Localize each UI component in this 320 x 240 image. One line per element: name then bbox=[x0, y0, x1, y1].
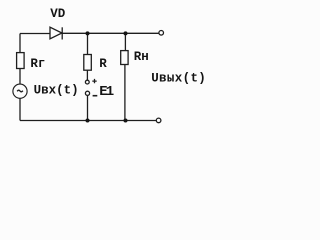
wire bottom rail bbox=[20, 120, 157, 122]
svg-text:Uвх(t): Uвх(t) bbox=[34, 84, 79, 98]
wire left branch top vertical bbox=[19, 34, 21, 53]
resistor Rг body bbox=[17, 53, 25, 69]
output terminal bottom circle bbox=[156, 118, 161, 123]
E1 minus terminal circle bbox=[85, 91, 89, 95]
diode VD cathode bar bbox=[61, 27, 63, 39]
label Rг bbox=[30, 57, 45, 71]
svg-text:R: R bbox=[99, 57, 107, 71]
diode VD triangle bbox=[50, 27, 62, 39]
E1 plus terminal circle bbox=[85, 80, 89, 84]
label VD bbox=[50, 7, 66, 21]
label E1 bbox=[99, 84, 114, 100]
svg-text:E1: E1 bbox=[99, 84, 114, 100]
minus sign of E1 bbox=[93, 95, 98, 97]
wire from E1 minus terminal to bottom rail bbox=[87, 96, 89, 121]
wire from R to E1 plus terminal bbox=[86, 70, 88, 80]
resistor Rн body bbox=[121, 51, 128, 65]
output terminal top circle bbox=[159, 31, 164, 36]
plus sign of E1 bbox=[92, 79, 96, 83]
label Rн bbox=[134, 50, 149, 64]
wire Rн branch top vertical bbox=[124, 33, 126, 50]
svg-text:VD: VD bbox=[50, 7, 66, 21]
node junction bottom of Rн branch bbox=[124, 119, 128, 123]
label Uвых(t) bbox=[151, 71, 206, 85]
wire from Rн to bottom rail bbox=[124, 65, 126, 121]
resistor R body bbox=[84, 55, 92, 71]
AC source tilde symbol bbox=[17, 90, 23, 92]
label R bbox=[99, 57, 107, 71]
wire top rail anode segment bbox=[20, 33, 50, 35]
wire middle branch top vertical bbox=[87, 33, 89, 54]
node junction top of R branch bbox=[86, 31, 90, 35]
svg-text:Rг: Rг bbox=[30, 57, 45, 71]
wire between Rг and source bbox=[19, 69, 21, 85]
wire top rail cathode segment to output terminal bbox=[62, 32, 159, 34]
node junction top of Rн branch bbox=[124, 31, 128, 35]
node junction bottom of R branch bbox=[86, 119, 90, 123]
svg-text:Rн: Rн bbox=[134, 50, 149, 64]
label Uвх(t) bbox=[34, 84, 79, 98]
wire from source to bottom rail bbox=[19, 98, 21, 120]
svg-text:Uвых(t): Uвых(t) bbox=[151, 71, 206, 85]
AC source Uвх circle bbox=[13, 84, 27, 98]
